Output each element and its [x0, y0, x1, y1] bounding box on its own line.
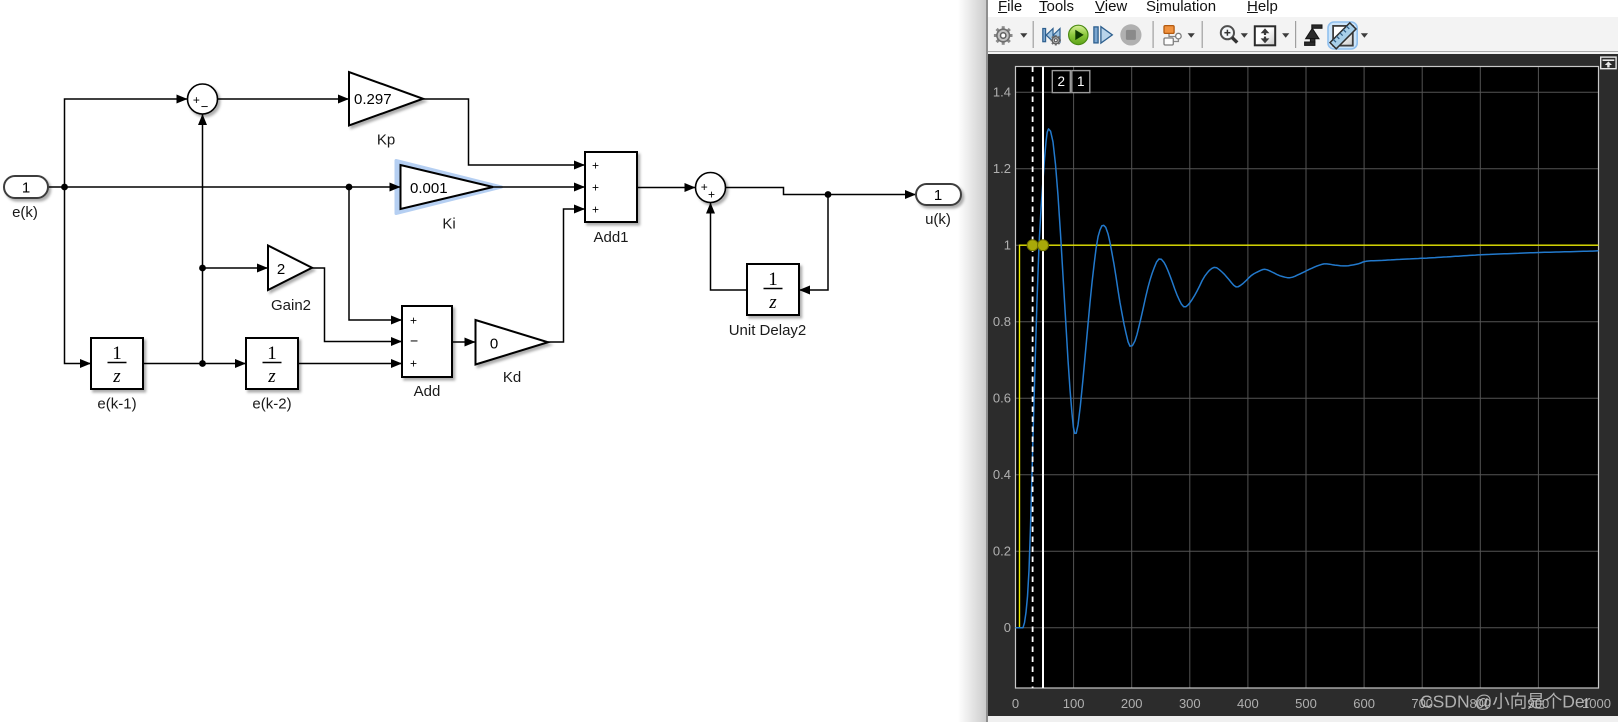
cursor markers on signal [1027, 240, 1038, 251]
svg-text:600: 600 [1353, 696, 1375, 711]
wire e(k) main line [48, 186, 400, 188]
svg-text:−: − [201, 99, 209, 114]
gain Gain2 [268, 246, 312, 291]
svg-text:Gain2: Gain2 [271, 297, 311, 314]
dock/restore corner icon [1601, 57, 1616, 69]
svg-text:Add1: Add1 [593, 229, 628, 246]
svg-text:+: + [592, 181, 599, 195]
svg-text:Kp: Kp [377, 132, 395, 149]
svg-text:Add: Add [414, 383, 441, 400]
svg-text:z: z [267, 366, 276, 387]
wire Sum2 to u(k) [726, 188, 916, 195]
svg-text:+: + [701, 180, 708, 194]
svg-text:1: 1 [1004, 238, 1011, 253]
svg-text:z: z [768, 292, 777, 313]
svg-text:2: 2 [277, 261, 285, 278]
svg-text:1: 1 [768, 269, 778, 290]
gain Kp [349, 72, 423, 126]
svg-text:+: + [592, 203, 599, 217]
input port e(k) [4, 176, 48, 198]
svg-text:+: + [410, 357, 417, 371]
junction at e(k) branch [61, 184, 68, 191]
wire up from delay line to Sum1 minus [202, 115, 204, 364]
svg-text:1: 1 [112, 343, 122, 364]
svg-text:u(k): u(k) [925, 211, 951, 228]
junction at Gain2 branch [199, 265, 206, 272]
wire down to e(k-1) [65, 187, 91, 364]
svg-text:+: + [592, 159, 599, 173]
x tick labels [1012, 696, 1611, 711]
svg-text:1.2: 1.2 [993, 161, 1011, 176]
svg-text:+: + [193, 93, 200, 107]
output port u(k) [916, 184, 961, 205]
svg-text:300: 300 [1179, 696, 1201, 711]
sum block Add1 [585, 152, 637, 222]
svg-text:z: z [112, 366, 121, 387]
wire Unit Delay2 to Sum2 plus [711, 203, 748, 290]
unit delay e(k-1) [91, 338, 143, 389]
svg-text:0.4: 0.4 [993, 467, 1011, 482]
sum block Add [402, 306, 452, 377]
wire up to Sum1 [65, 99, 188, 187]
unit delay e(k-2) [246, 338, 298, 389]
wire Add1 to Sum2 [637, 187, 695, 189]
cursor 1 solid line [1042, 67, 1044, 689]
gain Ki (selected, blue halo) [401, 165, 494, 209]
svg-text:Kd: Kd [503, 369, 521, 386]
svg-text:0: 0 [1004, 620, 1011, 635]
svg-text:−: − [410, 333, 418, 349]
svg-text:2: 2 [1058, 74, 1066, 89]
cursor label box 2 [1052, 71, 1070, 93]
svg-text:1: 1 [22, 180, 30, 197]
unit delay Unit Delay2 [747, 264, 799, 315]
svg-text:0: 0 [1012, 696, 1019, 711]
svg-text:0: 0 [490, 336, 498, 353]
svg-text:400: 400 [1237, 696, 1259, 711]
svg-text:CSDN @小向是个Der: CSDN @小向是个Der [1420, 692, 1591, 712]
Sum1 circle [188, 84, 218, 114]
wire Kd to Add1 input3 [548, 209, 585, 342]
svg-text:+: + [410, 314, 417, 328]
wire Kp to Add1 input1 [423, 99, 585, 165]
svg-text:1: 1 [267, 343, 277, 364]
svg-text:1: 1 [1077, 74, 1085, 89]
svg-text:200: 200 [1121, 696, 1143, 711]
wire Add to Kd [452, 341, 475, 344]
junction at Ki / Add branch [346, 184, 353, 191]
Sum2 circle [696, 173, 726, 203]
wire feedback down to Unit Delay2 [800, 195, 829, 291]
junction at e(k-1) output branch [199, 360, 206, 367]
svg-text:0.001: 0.001 [410, 180, 448, 197]
grid lines [1016, 67, 1599, 689]
svg-text:Ki: Ki [442, 216, 455, 233]
yellow reference step signal [1016, 245, 1599, 628]
svg-text:500: 500 [1295, 696, 1317, 711]
svg-text:0.8: 0.8 [993, 314, 1011, 329]
gain Ki selection halo [396, 161, 502, 214]
wire Sum1 to Kp [218, 98, 349, 100]
svg-text:0.297: 0.297 [354, 91, 392, 108]
cursor label box 1 [1072, 71, 1090, 93]
svg-text:e(k-2): e(k-2) [252, 396, 291, 413]
wire e(k-1) to e(k-2) [143, 363, 246, 365]
axes box [1016, 67, 1599, 689]
plot background [1016, 67, 1599, 689]
wire Ki to Add1 input2 [493, 186, 585, 188]
wire to Gain2 [203, 267, 268, 269]
cursor 2 dashed line [1032, 67, 1034, 689]
wire e(k-2) to Add input3 [299, 363, 402, 365]
svg-text:1.4: 1.4 [993, 85, 1011, 100]
svg-text:e(k): e(k) [12, 204, 38, 221]
y tick labels [993, 85, 1011, 636]
svg-text:0.2: 0.2 [993, 544, 1011, 559]
svg-text:100: 100 [1063, 696, 1085, 711]
wire e(k) down to Add input1 [349, 187, 402, 320]
svg-text:1: 1 [934, 187, 942, 204]
blue response curve [1016, 129, 1599, 628]
gain Kd [476, 320, 549, 365]
svg-text:+: + [708, 188, 715, 202]
svg-text:Unit Delay2: Unit Delay2 [729, 322, 807, 339]
junction at u(k) feedback branch [825, 191, 832, 198]
svg-text:e(k-1): e(k-1) [97, 396, 136, 413]
wire Gain2 to Add input2 [312, 268, 402, 342]
svg-text:0.6: 0.6 [993, 391, 1011, 406]
